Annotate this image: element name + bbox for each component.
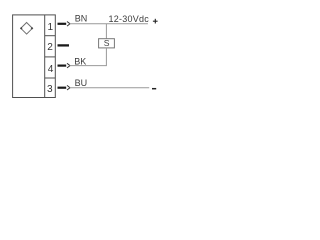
wire BK from load to pin 4 [70,48,107,66]
load box S [99,39,115,48]
terminal cell divider 1-2 [45,35,56,37]
svg-text:BK: BK [74,56,86,66]
terminal cell divider 4-3 [45,77,56,79]
svg-text:2: 2 [47,42,53,53]
pin 4 arrowhead [67,63,70,68]
pin 3 stub [58,87,67,89]
wire BN positive supply [70,23,148,25]
pin 1 arrowhead [67,22,70,27]
terminal cell divider 2-4 [45,56,56,58]
svg-text:4: 4 [48,64,54,75]
minus sign [152,88,156,90]
pin 3 arrowhead [67,85,70,90]
pin 2 stub [58,44,70,46]
wire drop to load S [105,24,107,39]
svg-text:BU: BU [75,78,88,88]
svg-text:3: 3 [47,84,53,95]
svg-text:1: 1 [47,22,53,33]
svg-text:12-30Vdc: 12-30Vdc [109,14,150,24]
plus sign [153,20,158,22]
pin 4 stub [58,64,67,66]
svg-text:BN: BN [75,14,88,24]
sensor body outline [13,15,56,98]
svg-text:S: S [104,38,110,48]
terminal column divider [44,15,46,98]
pin 1 stub [58,23,67,25]
wire BU negative supply [70,87,150,89]
sensor symbol diamond [21,23,33,35]
